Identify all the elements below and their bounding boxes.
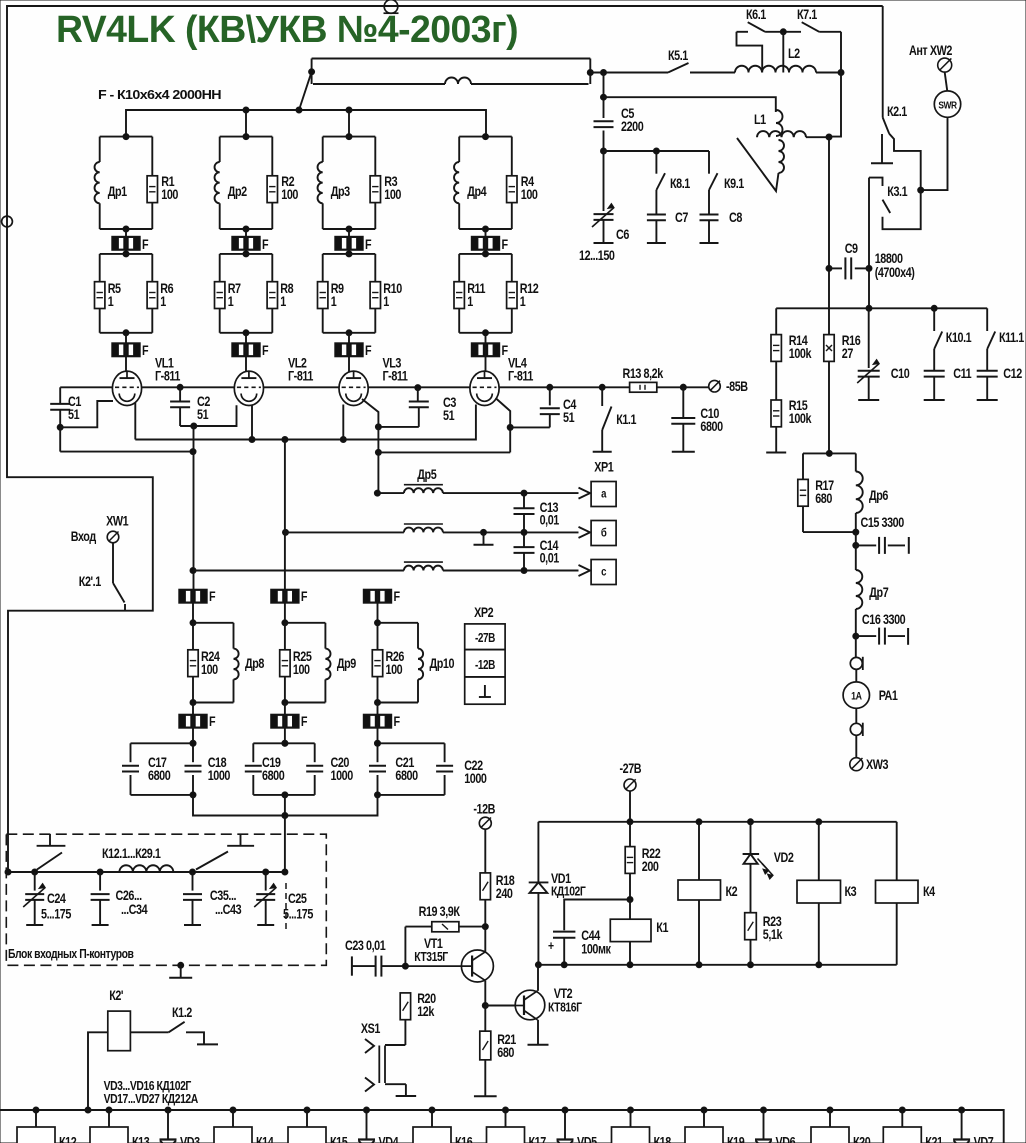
triode VL2 Г-811: [234, 371, 263, 405]
chassis ground under box: [178, 962, 184, 968]
svg-text:К15: К15: [330, 1134, 348, 1143]
svg-text:Г-811: Г-811: [383, 368, 409, 383]
grid bus wire: [60, 386, 112, 388]
svg-text:Г-811: Г-811: [155, 368, 181, 383]
wire C2 bottom to VL2: [180, 405, 236, 426]
wire bead to tank: [284, 603, 286, 623]
capacitor C10 (6800): [682, 387, 684, 417]
svg-text:Вход: Вход: [71, 529, 97, 544]
relay contact K11.1: [986, 308, 988, 331]
svg-text:С16 3300: С16 3300: [862, 612, 906, 627]
relay contact K3.1: [869, 178, 883, 186]
svg-text:VD17...VD27 КД212А: VD17...VD27 КД212А: [104, 1092, 199, 1106]
choke Dr5 winding b: [404, 528, 443, 533]
wire R13 to -85V: [657, 386, 709, 388]
wire to C15 node: [855, 532, 857, 545]
connector contact lower: [850, 723, 862, 735]
svg-text:100: 100: [384, 187, 401, 202]
resistor R16: [824, 335, 834, 362]
wire C3 bottom to chain3: [378, 426, 418, 428]
resistor R25 / choke Dr9 tank: [285, 622, 326, 624]
svg-text:XS1: XS1: [361, 1021, 381, 1036]
svg-text:К12.1...К29.1: К12.1...К29.1: [102, 846, 161, 861]
svg-text:ХР2: ХР2: [474, 605, 494, 620]
svg-text:-27В: -27В: [620, 761, 642, 776]
capacitor C8: [708, 190, 710, 214]
wire: [855, 669, 857, 682]
svg-text:L2: L2: [788, 46, 800, 61]
ferrite bead F (chain 2 upper): [271, 589, 299, 603]
svg-text:RV4LK (КВ\УКВ №4-2003г): RV4LK (КВ\УКВ №4-2003г): [56, 9, 518, 51]
wire K2.1 to antenna node: [889, 134, 921, 190]
svg-text:6800: 6800: [395, 768, 418, 783]
svg-text:РА1: РА1: [879, 688, 898, 703]
svg-text:С23 0,01: С23 0,01: [345, 938, 386, 953]
svg-text:К14: К14: [256, 1134, 274, 1143]
capacitor C7: [655, 190, 657, 214]
relay contact K12.1 (left): [37, 853, 62, 870]
connector -85V: [709, 380, 721, 392]
svg-text:К1.1: К1.1: [616, 412, 636, 427]
wire VL3 cathode left: [342, 405, 344, 440]
svg-text:Ант XW2: Ант XW2: [909, 43, 953, 58]
cathode feed segment right: [378, 451, 510, 453]
plate line (loop) top wire: [312, 58, 591, 60]
diode VD6: [761, 1107, 767, 1113]
svg-text:Др6: Др6: [869, 488, 889, 503]
resistor R21: [484, 1006, 486, 1032]
svg-text:5...175: 5...175: [283, 906, 314, 921]
wire VT2 collector: [537, 965, 539, 991]
wire K6.1-K7.1 segment: [765, 31, 801, 33]
svg-text:100k: 100k: [789, 346, 812, 361]
wire diagonal to plate line: [299, 72, 312, 110]
svg-text:К12: К12: [59, 1134, 77, 1143]
svg-text:5,1k: 5,1k: [763, 927, 783, 942]
svg-text:F: F: [394, 714, 401, 729]
relay contact K9.1: [708, 151, 710, 174]
relay К21 coil: [899, 1107, 905, 1113]
ferrite bead F (stage 2 lower): [245, 333, 247, 343]
relay contact K1.2: [130, 1031, 168, 1033]
svg-text:С24: С24: [47, 891, 66, 906]
wire L2 to node: [816, 72, 841, 74]
svg-text:С8: С8: [729, 210, 743, 225]
XP1 pin c box: [591, 560, 616, 585]
connector contact upper: [850, 657, 862, 669]
wire to K5.1: [590, 72, 668, 74]
wire VT2 emitter to ground: [537, 1020, 539, 1045]
wire L1 to node: [806, 136, 829, 138]
relay contact K5.1: [668, 63, 689, 73]
svg-text:100: 100: [521, 187, 538, 202]
plate line left end: [311, 59, 313, 85]
choke Dr5 winding a: [377, 492, 404, 494]
svg-text:51: 51: [197, 407, 209, 422]
relay contact K2.1: [882, 6, 884, 118]
wire: [855, 708, 857, 723]
relay К14 coil: [230, 1107, 236, 1113]
svg-text:100: 100: [161, 187, 178, 202]
svg-text:VT2: VT2: [554, 986, 573, 1001]
resistor R18: [484, 829, 486, 873]
relay К19 coil: [701, 1107, 707, 1113]
ferrite bead F (chain 3 upper): [363, 589, 391, 603]
relay contact K7.1: [802, 22, 820, 32]
svg-text:К9.1: К9.1: [724, 176, 744, 191]
svg-text:+: +: [548, 939, 554, 953]
svg-text:К3.1: К3.1: [887, 184, 907, 199]
svg-text:Др1: Др1: [108, 184, 128, 199]
wire K2' to bus: [88, 1032, 108, 1110]
svg-text:б: б: [601, 527, 607, 540]
resistor R15: [775, 361, 777, 401]
filament return bus: [193, 795, 378, 816]
ferrite bead F (stage 3 lower): [348, 333, 350, 343]
svg-text:1000: 1000: [208, 768, 231, 783]
inductor L1: [776, 110, 783, 136]
line b from chain2: [283, 529, 289, 535]
svg-text:6800: 6800: [262, 768, 285, 783]
resistors R5/R6 pair: [100, 253, 153, 255]
capacitor C1: [59, 387, 61, 404]
relay K4 coil: [896, 822, 898, 881]
resistor R26 / choke Dr10 tank: [378, 622, 419, 624]
choke Dr7: [855, 545, 857, 570]
ferrite bead F (stage 4 lower): [485, 333, 487, 343]
svg-text:К17: К17: [529, 1134, 547, 1143]
capacitor C16: [856, 635, 876, 637]
svg-text:-85В: -85В: [726, 379, 748, 394]
connector circle on top border: [384, 0, 398, 13]
resistor R14: [775, 308, 777, 335]
wire bead to tank: [192, 603, 194, 623]
svg-text:К10.1: К10.1: [946, 330, 972, 345]
relay K2 coil: [698, 822, 700, 880]
svg-text:Др9: Др9: [337, 656, 357, 671]
filament chain 2 wire: [284, 440, 286, 590]
capacitors C21/C22 network: [378, 742, 445, 744]
chain3 node to line a: [374, 490, 380, 496]
relay K1 coil: [629, 900, 631, 920]
svg-text:F: F: [301, 714, 308, 729]
transistor VT1 КТ315Г: [405, 950, 493, 982]
wire line c to XP1: [443, 570, 579, 572]
svg-text:К8.1: К8.1: [670, 176, 690, 191]
svg-text:К2'.1: К2'.1: [79, 574, 102, 589]
svg-text:F: F: [365, 343, 372, 358]
svg-text:Др10: Др10: [430, 656, 455, 671]
K2.1 NC contact to chassis: [881, 134, 883, 163]
svg-text:F: F: [394, 589, 401, 604]
dashed gang link: [285, 883, 287, 930]
capacitor C11: [933, 349, 935, 371]
svg-text:12k: 12k: [417, 1004, 434, 1019]
svg-text:6800: 6800: [700, 419, 723, 434]
triode VL3 Г-811: [339, 371, 368, 405]
wire to meter: [855, 636, 857, 657]
svg-text:1: 1: [383, 294, 389, 309]
svg-text:К4: К4: [923, 884, 935, 899]
svg-text:6800: 6800: [148, 768, 171, 783]
triode VL4 Г-811: [470, 371, 499, 405]
svg-text:0,01: 0,01: [540, 512, 560, 527]
relay К17 coil: [503, 1107, 509, 1113]
ferrite bead F (stage 1 upper): [125, 229, 127, 236]
svg-text:Др7: Др7: [869, 585, 889, 600]
wire VL3 to chain3: [362, 399, 378, 452]
svg-text:XW1: XW1: [106, 513, 129, 528]
svg-text:12...150: 12...150: [579, 248, 615, 263]
ferrite bead F (stage 2 upper): [245, 229, 247, 236]
choke Dr6: [856, 472, 863, 514]
wire -27V down: [629, 791, 631, 822]
ferrite bead F (chain 3 lower): [377, 703, 379, 715]
svg-text:К3: К3: [845, 884, 857, 899]
resistor R22: [629, 822, 631, 847]
svg-text:(4700х4): (4700х4): [875, 265, 915, 280]
relay К20 coil: [827, 1107, 833, 1113]
XP1 pin b box: [591, 521, 616, 546]
resistor R24 / choke Dr8 tank: [193, 622, 234, 624]
relay contact K8.1: [655, 151, 657, 174]
relay contact K29.1 (right): [196, 852, 228, 870]
choke Dr5 winding c: [404, 566, 443, 571]
svg-text:1: 1: [280, 294, 286, 309]
SWR meter: [934, 91, 960, 117]
svg-text:1: 1: [228, 294, 234, 309]
svg-text:51: 51: [443, 408, 455, 423]
relay row bus: [0, 1110, 1004, 1143]
svg-text:SWR: SWR: [938, 100, 957, 112]
resistors R9/R10 pair: [323, 253, 376, 255]
input connector XW1: [107, 531, 119, 543]
svg-text:С12: С12: [1003, 366, 1022, 381]
svg-text:1: 1: [331, 294, 337, 309]
relay К18 coil: [628, 1107, 634, 1113]
transistor VT2 КТ816Г: [515, 990, 545, 1020]
wire K6.1 left jog to L2 tap: [737, 32, 763, 73]
capacitor C12: [986, 349, 988, 371]
connector -27V: [624, 779, 636, 791]
svg-text:100: 100: [293, 662, 310, 677]
filament chain 3 upper: [377, 452, 379, 493]
svg-text:F: F: [142, 343, 149, 358]
wire C1 to VL1 cathode: [60, 401, 113, 427]
wire tank2 drop: [245, 110, 247, 137]
wire K7.1 to corner: [819, 31, 841, 33]
svg-text:КТ315Г: КТ315Г: [414, 950, 448, 964]
svg-text:К2': К2': [109, 988, 123, 1003]
svg-text:К1.2: К1.2: [172, 1005, 192, 1020]
diode VD4: [364, 1107, 370, 1113]
svg-text:Г-811: Г-811: [508, 368, 534, 383]
relay contact K6.1: [737, 31, 749, 33]
svg-text:К2: К2: [726, 884, 738, 899]
XP1 pin a box: [591, 482, 616, 507]
wire VT1 emitter to VT2 base: [485, 1005, 515, 1007]
svg-text:R13 8,2k: R13 8,2k: [623, 366, 664, 381]
wire K5.1 to L2: [690, 72, 735, 74]
wire XW2 to SWR: [945, 72, 948, 91]
ferrite bead F (chain 1 lower): [192, 703, 194, 715]
svg-text:1: 1: [467, 294, 473, 309]
ferrite bead F (chain 1 upper): [179, 589, 207, 603]
resistor R17 with choke Dr6 tank: [803, 452, 856, 454]
relay К12 coil: [33, 1107, 39, 1113]
capacitor C14: [523, 532, 525, 547]
connector -12V: [479, 817, 491, 829]
resistors R11/R12 pair: [459, 253, 512, 255]
relay contact K1.1: [601, 387, 603, 406]
svg-text:F: F: [365, 237, 372, 252]
wire VL1 cathode right: [134, 403, 136, 440]
svg-text:С6: С6: [616, 227, 630, 242]
capacitor C15: [856, 544, 876, 546]
arrow into XP1 pin b: [579, 527, 591, 538]
wire C4 bottom: [510, 426, 550, 428]
ferrite bead F (chain 2 lower): [284, 703, 286, 715]
svg-text:F: F: [502, 237, 509, 252]
svg-text:С11: С11: [953, 366, 972, 381]
svg-text:Г-811: Г-811: [288, 368, 314, 383]
svg-text:F - К10х6х4 2000НН: F - К10х6х4 2000НН: [98, 87, 221, 102]
page border frame (top and left): [7, 6, 883, 872]
svg-text:-12В: -12В: [473, 801, 495, 816]
capacitors C35...C43: [192, 872, 194, 891]
relay contact K2'.1: [112, 543, 114, 583]
L1 core triangle: [737, 138, 779, 191]
antenna connector XW3: [850, 758, 863, 771]
diode VD1: [537, 822, 539, 883]
svg-text:F: F: [209, 589, 216, 604]
svg-text:F: F: [301, 589, 308, 604]
ferrite bead F (stage 1 lower): [125, 333, 127, 343]
plate line right end: [589, 59, 591, 85]
coil between contacts: [119, 865, 173, 872]
relay К13 coil: [106, 1107, 112, 1113]
control bottom bus: [538, 964, 896, 966]
svg-text:К5.1: К5.1: [668, 48, 688, 63]
svg-text:К16: К16: [455, 1134, 473, 1143]
variable capacitor C24: [34, 872, 36, 891]
relay К15 coil: [304, 1107, 310, 1113]
triode VL1 Г-811: [112, 371, 141, 405]
svg-text:С15 3300: С15 3300: [861, 515, 905, 530]
svg-text:VD4: VD4: [379, 1134, 399, 1143]
svg-text:F: F: [262, 343, 269, 358]
svg-text:F: F: [262, 237, 269, 252]
svg-text:100: 100: [386, 662, 403, 677]
inductor L2: [735, 66, 816, 73]
wire: [855, 735, 857, 757]
svg-text:-27В: -27В: [475, 632, 495, 645]
svg-text:...С34: ...С34: [121, 902, 148, 917]
anode bus wire: [126, 110, 486, 137]
ground on line b: [483, 532, 485, 544]
diode VD5: [562, 1107, 568, 1113]
wire C1 to feed segment: [59, 427, 61, 451]
choke Dr2 / resistor R2 tank: [243, 134, 249, 140]
wire VL4 cathode right: [496, 398, 511, 452]
wire to L1: [604, 97, 776, 112]
wire VL4 cathode left top: [475, 405, 477, 413]
svg-text:200: 200: [642, 859, 659, 874]
left border connector circle: [2, 216, 13, 227]
variable capacitor C25: [265, 872, 267, 891]
svg-text:Др3: Др3: [331, 184, 351, 199]
relay contact K10.1: [933, 308, 935, 331]
svg-text:680: 680: [497, 1045, 514, 1060]
capacitor C5: [603, 73, 605, 119]
svg-text:1: 1: [520, 294, 526, 309]
arrow into XP1 pin c: [579, 565, 591, 576]
capacitor C9: [829, 267, 842, 269]
LED VD2: [750, 822, 752, 854]
svg-text:С10: С10: [891, 366, 910, 381]
svg-text:VD3: VD3: [180, 1134, 200, 1143]
capacitor C13: [523, 493, 525, 508]
svg-text:-12В: -12В: [475, 659, 495, 672]
svg-text:51: 51: [563, 410, 575, 425]
svg-text:ХР1: ХР1: [594, 459, 614, 474]
svg-text:1000: 1000: [331, 768, 354, 783]
wire bead to tank: [377, 603, 379, 623]
ferrite bead F (stage 4 upper): [485, 229, 487, 236]
svg-text:680: 680: [815, 491, 832, 506]
svg-text:К21: К21: [925, 1134, 943, 1143]
svg-text:XW3: XW3: [866, 757, 889, 772]
wire K7.1 tap to L2: [782, 32, 784, 73]
svg-text:1000: 1000: [464, 771, 487, 786]
svg-text:51: 51: [68, 407, 80, 422]
svg-text:VD2: VD2: [774, 850, 794, 865]
svg-text:КТ816Г: КТ816Г: [548, 1000, 582, 1014]
svg-text:С7: С7: [675, 210, 689, 225]
svg-text:К13: К13: [132, 1134, 150, 1143]
svg-text:Др4: Др4: [467, 184, 487, 199]
arrow into XP1 pin a: [579, 488, 591, 499]
svg-text:К11.1: К11.1: [999, 330, 1024, 345]
svg-text:Др5: Др5: [417, 467, 437, 482]
svg-text:2200: 2200: [621, 119, 644, 134]
svg-text:К1: К1: [656, 920, 668, 935]
capacitors C26...C34: [99, 872, 101, 891]
wire K3.1 to antenna node: [883, 190, 921, 229]
diode VD7: [959, 1107, 965, 1113]
svg-text:1: 1: [108, 294, 114, 309]
svg-text:1А: 1А: [851, 691, 862, 703]
relay К16 coil: [429, 1107, 435, 1113]
ferrite bead F (stage 3 upper): [348, 229, 350, 236]
line c from chain1: [193, 570, 404, 572]
svg-text:R19 3,9К: R19 3,9К: [419, 904, 461, 919]
svg-text:К2.1: К2.1: [887, 104, 907, 119]
bias bus wire: [776, 307, 987, 309]
plate line bottom wire with coil: [313, 83, 445, 85]
wire line a to XP1: [443, 492, 579, 494]
svg-text:Др8: Др8: [245, 656, 265, 671]
diode VD3: [165, 1107, 171, 1113]
capacitor C4: [549, 387, 551, 405]
capacitors C19/C20 network: [253, 742, 314, 744]
dashed box - input P-contours block: [6, 834, 326, 965]
svg-text:F: F: [209, 714, 216, 729]
wire SWR down: [921, 117, 948, 190]
resistor R23: [745, 913, 757, 940]
cathode bus wire: [135, 412, 476, 440]
control top bus: [538, 821, 896, 823]
